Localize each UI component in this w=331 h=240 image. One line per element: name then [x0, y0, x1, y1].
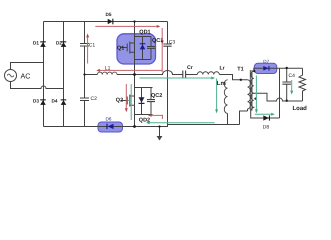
svg-text:Lr: Lr: [220, 65, 225, 71]
svg-text:C2: C2: [91, 96, 98, 102]
svg-text:QD2: QD2: [139, 117, 150, 123]
svg-text:Cr: Cr: [187, 65, 193, 71]
svg-text:D6: D6: [106, 117, 112, 122]
svg-text:Lm: Lm: [217, 80, 226, 87]
svg-text:D4: D4: [52, 98, 58, 103]
svg-text:D3: D3: [33, 98, 39, 103]
svg-text:D2: D2: [56, 40, 62, 45]
svg-text:QC2: QC2: [151, 93, 162, 99]
svg-text:C3: C3: [169, 39, 176, 45]
svg-text:QC1: QC1: [152, 38, 163, 44]
svg-text:D5: D5: [106, 12, 112, 17]
svg-text:C1: C1: [89, 42, 96, 48]
svg-text:QD1: QD1: [139, 29, 150, 35]
svg-text:L1: L1: [105, 65, 111, 71]
svg-text:Q1: Q1: [117, 45, 124, 51]
svg-text:D7: D7: [263, 59, 269, 64]
svg-text:AC: AC: [21, 72, 31, 81]
svg-text:D8: D8: [263, 124, 270, 130]
svg-text:D1: D1: [33, 40, 39, 45]
svg-text:Q2: Q2: [116, 97, 123, 103]
svg-text:Load: Load: [293, 105, 308, 112]
svg-text:T1: T1: [237, 66, 243, 72]
svg-text:C4: C4: [289, 73, 296, 79]
